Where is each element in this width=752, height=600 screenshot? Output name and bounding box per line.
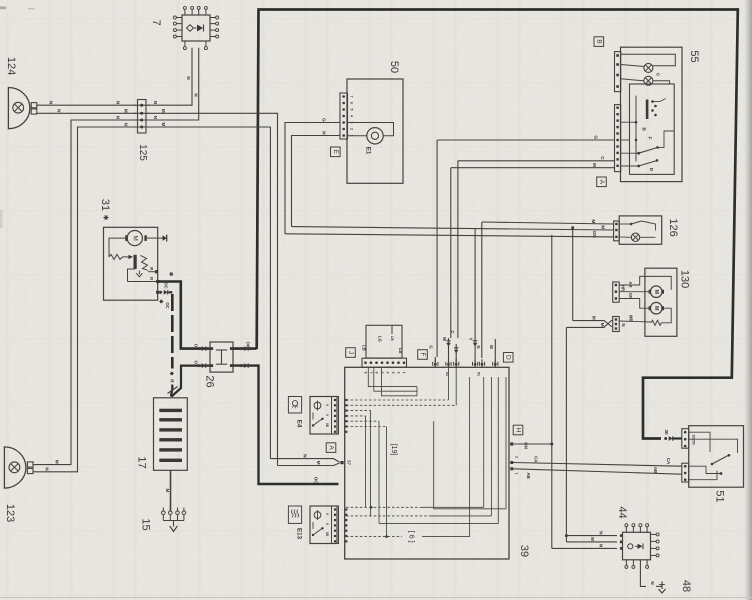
component 31 motor chassis arrow right bbox=[147, 237, 163, 239]
svg-text:[ 6 ]: [ 6 ] bbox=[408, 531, 417, 543]
component 7 internal diamond symbol bbox=[187, 25, 194, 32]
component 51 lower strip bbox=[682, 463, 689, 482]
riser C down to 39 pin bbox=[457, 161, 459, 338]
svg-text:AR: AR bbox=[628, 281, 633, 287]
svg-text:N: N bbox=[302, 454, 308, 458]
svg-text:M: M bbox=[599, 323, 605, 327]
svg-text:N: N bbox=[123, 123, 129, 127]
component 26 corner pins bbox=[210, 347, 213, 350]
svg-text:8: 8 bbox=[364, 372, 368, 374]
component 39 main box bbox=[345, 367, 509, 559]
wire G riser x285 to 50 bbox=[285, 123, 340, 234]
component 17 box bbox=[154, 398, 188, 471]
svg-text:E: E bbox=[332, 150, 339, 155]
svg-text:6: 6 bbox=[350, 102, 354, 104]
component 51 upper strip bbox=[682, 429, 689, 449]
wire thick 26 row2 right down to 39 OC pin bbox=[233, 366, 339, 484]
svg-text:30: 30 bbox=[664, 429, 669, 435]
component 50 box bbox=[347, 79, 403, 183]
svg-text:AB: AB bbox=[653, 467, 658, 474]
boxed letter B above 55 bbox=[594, 37, 604, 47]
svg-text:B: B bbox=[595, 39, 602, 43]
svg-text:GR: GR bbox=[628, 293, 633, 299]
wire M long from 50 riser to 126 bbox=[292, 227, 614, 230]
wire OC thick from 31 to 26 upper row bbox=[156, 280, 159, 283]
39 internal riser x433.7 bbox=[433, 421, 435, 509]
svg-text:N: N bbox=[621, 323, 626, 326]
component 55 bulb 1 bbox=[644, 63, 653, 72]
component 44 right stubs bbox=[651, 533, 657, 535]
component 130 motor 2 bbox=[650, 302, 662, 314]
component 55 inner switch box bbox=[630, 84, 675, 174]
component 130 resistor bbox=[651, 320, 662, 325]
wire thick 26 row1 right to feed corner bbox=[233, 347, 257, 350]
icon box E4 lamp bbox=[288, 397, 301, 414]
component 17 contact bars bbox=[159, 409, 182, 412]
svg-text:HR: HR bbox=[621, 285, 626, 291]
svg-text:CA: CA bbox=[534, 456, 539, 463]
svg-text:LG: LG bbox=[378, 336, 383, 342]
svg-text:[19]: [19] bbox=[390, 444, 399, 456]
relay E13 pin strip bbox=[332, 506, 339, 544]
svg-text:GN: GN bbox=[524, 442, 529, 450]
component 31 arrow to element bbox=[123, 256, 129, 258]
svg-text:N: N bbox=[44, 467, 50, 471]
relay E4 contact bbox=[313, 419, 322, 426]
svg-text:J: J bbox=[347, 351, 354, 354]
component 124 terminal tabs bbox=[31, 103, 37, 108]
left edge specks bbox=[0, 7, 6, 10]
wire M riser x572.7 T on M-wire down to 130 bbox=[572, 228, 574, 321]
component 126 box bbox=[619, 216, 662, 244]
component 130 upper connector strip bbox=[613, 282, 620, 302]
svg-text:M: M bbox=[160, 109, 166, 113]
svg-text:51: 51 bbox=[477, 372, 481, 376]
component 44 box bbox=[623, 532, 651, 560]
39 right side pin H GN bbox=[513, 425, 523, 435]
svg-text:E4: E4 bbox=[296, 420, 303, 428]
component 15 bus and ground bbox=[163, 520, 184, 522]
component 31 left wire and resistor bbox=[109, 238, 125, 257]
svg-text:31: 31 bbox=[99, 199, 111, 211]
component 31 right edge exit pins bbox=[155, 270, 158, 273]
svg-text:N: N bbox=[321, 131, 327, 135]
right page-edge scan shadow bbox=[742, 0, 752, 600]
component 126 connector strip bbox=[614, 221, 620, 241]
relay E4 coil circle with arrow bbox=[314, 402, 321, 409]
component 31 lower wiring and down arrow bbox=[128, 269, 136, 282]
svg-text:M: M bbox=[164, 489, 170, 493]
svg-text:4: 4 bbox=[350, 115, 354, 117]
component 7 pin stubs left bbox=[177, 17, 183, 19]
inline connector pairs on risers bbox=[446, 340, 450, 342]
svg-text:N: N bbox=[649, 581, 655, 585]
svg-text:G: G bbox=[321, 118, 327, 122]
svg-text:H: H bbox=[515, 428, 522, 433]
svg-text:R: R bbox=[169, 379, 175, 383]
svg-text:OC: OC bbox=[314, 477, 319, 485]
boxed letter E bbox=[331, 147, 341, 157]
connector 125 body bbox=[138, 100, 147, 134]
39 left edge pin squares facing E13 bbox=[345, 508, 347, 510]
component 51 box bbox=[689, 426, 744, 488]
riser M down to 39 pin bbox=[450, 168, 452, 338]
wire AB from 39 to 51 bbox=[513, 469, 682, 474]
component 124 horn body half-disc bbox=[8, 88, 29, 129]
wire 30-feed connector pair into 51 bbox=[664, 437, 667, 440]
svg-text:M: M bbox=[653, 289, 659, 294]
svg-text:N: N bbox=[152, 116, 158, 120]
relay E13 coil circle with arrow bbox=[314, 512, 321, 519]
svg-text:4: 4 bbox=[386, 372, 390, 374]
svg-text:50: 50 bbox=[388, 61, 400, 73]
svg-text:44: 44 bbox=[616, 506, 628, 518]
svg-text:48: 48 bbox=[680, 580, 692, 592]
svg-text:N: N bbox=[476, 345, 481, 348]
svg-text:OC: OC bbox=[164, 282, 169, 288]
svg-text:M: M bbox=[442, 337, 447, 341]
relay E13 box bbox=[310, 506, 337, 544]
component 55 switch blade 2 bbox=[639, 161, 657, 166]
svg-text:F: F bbox=[648, 137, 653, 140]
svg-text:17: 17 bbox=[136, 456, 148, 468]
riser G down to 39 pin bbox=[436, 140, 438, 357]
component 51 switch blade bbox=[712, 456, 728, 465]
svg-text:N: N bbox=[152, 101, 158, 105]
svg-text:2: 2 bbox=[350, 128, 354, 130]
component 50 connector strip bbox=[340, 93, 348, 139]
svg-text:E13: E13 bbox=[296, 528, 303, 540]
svg-text:✱: ✱ bbox=[102, 215, 110, 221]
svg-text:R: R bbox=[149, 267, 154, 270]
boxed letter D bbox=[503, 353, 513, 363]
component 15 connector circles bbox=[162, 511, 166, 515]
wire 30-feed thick loop top/right bbox=[257, 10, 738, 439]
svg-text:M: M bbox=[600, 225, 606, 229]
component 44 bottom stubs bbox=[625, 560, 627, 566]
component 50 strip pins bbox=[342, 95, 345, 98]
svg-text:M: M bbox=[589, 537, 595, 541]
component 55 outer box bbox=[621, 47, 683, 181]
svg-text:LB: LB bbox=[390, 336, 394, 341]
svg-text:OC: OC bbox=[246, 342, 251, 348]
svg-text:7: 7 bbox=[350, 96, 354, 98]
relay E13 contact bbox=[313, 529, 322, 536]
component 126 pressure switch circle bbox=[631, 233, 639, 241]
svg-text:15: 15 bbox=[140, 518, 152, 530]
svg-text:26: 26 bbox=[204, 375, 216, 387]
svg-text:123: 123 bbox=[4, 504, 16, 522]
wire N 124 tab2 long run to riser x277.5 bbox=[37, 113, 278, 465]
component 55 upper connector strip bbox=[615, 52, 621, 92]
wire M 123 riser to 7 pin2 bbox=[33, 48, 199, 465]
component 123 terminal tabs bbox=[27, 462, 33, 467]
wire CA from 39 to 51 bbox=[513, 463, 682, 467]
pin 57 at 39 edge bbox=[340, 461, 343, 464]
component 31 box bbox=[104, 227, 158, 300]
component 55 lower connector strip bbox=[615, 105, 621, 172]
wire N 123 riser to long run x270.4 bbox=[33, 127, 270, 472]
svg-text:1: 1 bbox=[515, 473, 519, 475]
component 7 pin stubs right bbox=[210, 17, 216, 19]
svg-text:55: 55 bbox=[688, 50, 700, 62]
component 26 I-beam element bbox=[216, 349, 227, 351]
svg-text:0B: 0B bbox=[325, 532, 329, 537]
svg-text:MB: MB bbox=[628, 315, 633, 322]
component 50 internal wiring to horn bbox=[348, 135, 367, 137]
svg-text:130: 130 bbox=[679, 270, 691, 288]
svg-text:N: N bbox=[598, 544, 604, 548]
svg-text:CA: CA bbox=[666, 458, 671, 465]
svg-text:M: M bbox=[160, 122, 166, 126]
svg-text:2: 2 bbox=[515, 456, 519, 458]
svg-text:7: 7 bbox=[369, 372, 373, 374]
wire 44 to ground 48 bbox=[640, 560, 646, 587]
svg-text:AB: AB bbox=[526, 472, 531, 479]
component 55 switch blade 1 bbox=[621, 139, 630, 141]
wire M to 57 junction bbox=[278, 463, 340, 466]
svg-text:F: F bbox=[419, 353, 426, 357]
svg-text:M: M bbox=[591, 163, 597, 167]
svg-text:N: N bbox=[115, 116, 121, 120]
component 124 bulb cross symbol bbox=[13, 102, 24, 113]
39 internal nested L wires lower bbox=[346, 506, 420, 508]
component 44 internal symbols bbox=[628, 544, 633, 549]
component 55 pin stub links bbox=[621, 152, 639, 154]
riser V from 39 pin x475 up to M2-wire join bbox=[474, 338, 476, 367]
svg-text:5: 5 bbox=[350, 109, 354, 111]
component 39 top-left connector housing bbox=[366, 325, 402, 358]
svg-text:N: N bbox=[185, 76, 191, 80]
component 39 top-left pin strip bbox=[362, 358, 407, 367]
svg-text:M: M bbox=[315, 461, 321, 465]
svg-text:O: O bbox=[194, 360, 199, 364]
component 55 switch contact bar bbox=[646, 100, 649, 120]
svg-text:2: 2 bbox=[397, 372, 401, 374]
svg-text:D: D bbox=[505, 355, 512, 360]
svg-text:N: N bbox=[598, 531, 604, 535]
svg-text:39: 39 bbox=[518, 545, 530, 557]
wire GN T-branch riser x551.8 and to 39 H pin and 44 bbox=[551, 235, 553, 549]
svg-text:N: N bbox=[48, 101, 54, 105]
component 55 inner vertical bus bbox=[635, 96, 637, 162]
svg-text:M: M bbox=[489, 345, 494, 349]
svg-text:M: M bbox=[54, 460, 60, 464]
svg-text:M: M bbox=[591, 316, 597, 320]
svg-text:7: 7 bbox=[150, 19, 162, 25]
svg-text:E1: E1 bbox=[365, 147, 372, 155]
svg-text:57: 57 bbox=[346, 460, 351, 465]
boxed letter A at E4 bbox=[326, 443, 336, 453]
39 left edge pin squares facing E4 bbox=[345, 399, 347, 401]
svg-text:0B: 0B bbox=[325, 423, 329, 428]
wire MB strip to resistor bbox=[619, 321, 651, 322]
wire GN long from 50 riser to 126 bbox=[285, 234, 614, 237]
svg-text:M: M bbox=[123, 109, 129, 113]
component 50 horn symbol E1 double circle bbox=[367, 128, 383, 144]
component 26 box bbox=[210, 342, 233, 372]
svg-text:✱: ✱ bbox=[168, 272, 174, 277]
svg-text:124: 124 bbox=[5, 57, 17, 75]
boxed letter A below 55 bbox=[597, 177, 607, 187]
component 130 motor 1 bbox=[650, 286, 662, 298]
svg-text:C: C bbox=[599, 156, 605, 160]
component 123 horn body half-disc bbox=[4, 447, 26, 488]
svg-text:LB: LB bbox=[362, 345, 367, 351]
svg-text:GN: GN bbox=[591, 231, 597, 239]
svg-text:5: 5 bbox=[380, 372, 384, 374]
svg-text:G: G bbox=[593, 135, 599, 139]
component 126 switch symbol bbox=[619, 223, 631, 225]
boxed letter F bbox=[418, 350, 428, 360]
39 internal wire to right corner bbox=[434, 377, 506, 509]
component 7 pin stubs top bbox=[184, 10, 186, 16]
svg-text:M: M bbox=[131, 235, 138, 240]
riser stubs above remaining top pins bbox=[494, 339, 496, 367]
connector 125 junction dots and ticks bbox=[140, 104, 143, 107]
boxed letter J bbox=[346, 348, 356, 358]
svg-text:G: G bbox=[429, 345, 434, 348]
svg-text:N: N bbox=[115, 101, 121, 105]
component 130 box bbox=[645, 268, 677, 336]
relay E4 box bbox=[310, 397, 337, 435]
svg-text:O: O bbox=[194, 344, 199, 348]
wire R* dashed thick from 31 down to 17 bbox=[156, 291, 159, 294]
svg-text:6: 6 bbox=[375, 372, 379, 374]
component 7 pin stubs bottom outer bbox=[184, 41, 186, 47]
ground symbol 48 bbox=[656, 585, 662, 587]
wires M M crossing into 130 lower strip bbox=[573, 321, 613, 327]
svg-text:51: 51 bbox=[714, 490, 726, 502]
wire N riser x291.5 to 50 bbox=[292, 136, 341, 227]
relay E4 pin strip bbox=[332, 397, 339, 435]
component 55 bulb wiring bbox=[621, 54, 676, 66]
wire M from riser to 55 bbox=[451, 167, 615, 169]
wire M 17 to 15 bbox=[170, 470, 172, 511]
wire M riser x566.4 from 130 strip down to 44 bbox=[565, 327, 567, 542]
component 123 bulb cross symbol bbox=[9, 462, 20, 473]
svg-text:N: N bbox=[56, 109, 62, 113]
component 51 internal wiring bbox=[689, 432, 710, 452]
component 39 top edge pins bbox=[434, 359, 436, 367]
wire G from riser to 55 bbox=[437, 139, 614, 141]
svg-text:125: 125 bbox=[137, 144, 148, 161]
svg-text:M: M bbox=[590, 219, 596, 223]
wire M from 39 pin riser to 126 bbox=[482, 222, 614, 224]
component 7 internal arrow symbol bbox=[197, 25, 203, 32]
component 55 bulb 2 bbox=[644, 76, 653, 85]
component 31 zigzag element bbox=[141, 255, 149, 270]
wire C from riser to 55 bbox=[458, 160, 615, 162]
component 55 switch terminals upper bbox=[651, 100, 654, 103]
svg-text:C: C bbox=[450, 330, 455, 333]
39 internal short drops from strip bbox=[368, 367, 417, 386]
bottom scan line bbox=[0, 597, 752, 599]
svg-text:A: A bbox=[328, 445, 335, 450]
svg-text:126: 126 bbox=[667, 218, 679, 236]
svg-text:A: A bbox=[598, 180, 605, 185]
component 130 lower connector strip bbox=[613, 317, 620, 332]
39 right side pins CA AB bbox=[510, 461, 513, 464]
component 31 motor M bbox=[127, 231, 142, 246]
svg-text:M: M bbox=[653, 306, 659, 311]
component 44 left pin stubs bbox=[620, 534, 623, 537]
component 7 control unit box bbox=[182, 15, 210, 41]
svg-text:OC: OC bbox=[165, 302, 170, 308]
svg-text:3: 3 bbox=[391, 372, 395, 374]
wire N to 57 junction bbox=[270, 459, 339, 463]
svg-text:N: N bbox=[193, 93, 199, 97]
component 130 strip to motors wiring bbox=[619, 276, 671, 289]
wire N 124 to riser of 7 pin1 bbox=[37, 48, 192, 105]
component 31 bimetal bars bbox=[134, 255, 137, 269]
svg-text:V: V bbox=[469, 338, 474, 341]
icon box E13 heater bbox=[288, 506, 301, 523]
svg-text:1: 1 bbox=[402, 372, 406, 374]
svg-text:LB: LB bbox=[398, 348, 403, 354]
39 internal wiring dashed rows from E4 pins bbox=[346, 399, 449, 401]
39 internal verticals bbox=[365, 416, 367, 507]
wire from 26 lower row down to 17 with cross tick bbox=[172, 366, 210, 397]
component 44 top stubs bbox=[625, 527, 627, 533]
svg-text:R: R bbox=[149, 277, 154, 280]
